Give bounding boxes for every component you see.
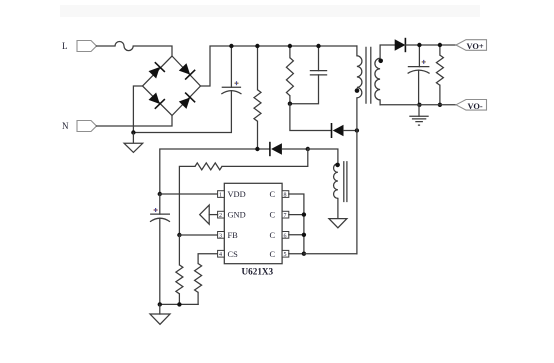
- resistor R3 FB divider: [176, 235, 183, 304]
- svg-text:VO-: VO-: [468, 102, 483, 111]
- node aux top junction: [306, 147, 310, 151]
- wire VDD line to pin 1: [160, 193, 218, 195]
- wire snubber to clamp diode: [290, 104, 332, 131]
- node output rail at R6: [438, 43, 442, 47]
- capacitor C2 snubber: [290, 46, 327, 104]
- wire primary bottom to drain rail: [356, 98, 358, 254]
- node rail A at R1 bottom: [255, 147, 259, 151]
- node top rail at C1: [229, 44, 233, 48]
- U1 pin 4: [218, 250, 225, 258]
- wire bus to drain line: [304, 253, 357, 255]
- connector VO+: [456, 40, 487, 51]
- wire FB line to pin 3: [179, 234, 217, 236]
- wire CS line to pin 4: [198, 254, 218, 264]
- wire pin 6 stub: [289, 234, 304, 236]
- U1 pin 3: [218, 232, 225, 240]
- node secondary polarity dot: [378, 59, 383, 64]
- resistor R2 snubber: [286, 46, 293, 104]
- svg-text:1: 1: [219, 193, 222, 199]
- svg-text:VO+: VO+: [467, 42, 484, 51]
- diode D7 output rectifier: [395, 38, 456, 52]
- node primary bottom junction: [355, 128, 359, 132]
- U1 pin 2: [218, 211, 225, 219]
- wire L to fuse: [97, 45, 116, 47]
- node VDD junction: [158, 192, 162, 196]
- node top rail at R2: [288, 44, 292, 48]
- transformer T1 aux core: [344, 161, 347, 202]
- node bus at pin 6: [302, 233, 306, 237]
- diode D5 clamp: [332, 123, 357, 138]
- svg-text:CS: CS: [228, 250, 239, 259]
- node aux polarity dot: [335, 163, 340, 168]
- wire primary ground rail to bulk cap: [133, 91, 231, 133]
- svg-text:2: 2: [219, 213, 222, 219]
- fuse F1: [115, 42, 133, 51]
- svg-text:VDD: VDD: [228, 190, 246, 199]
- transformer T1 aux winding: [334, 164, 338, 199]
- transformer T1 secondary winding: [375, 45, 395, 105]
- capacitor C3 VDD electrolytic: [150, 194, 170, 304]
- capacitor C1 bulk electrolytic: [221, 46, 241, 94]
- svg-text:FB: FB: [228, 231, 239, 240]
- svg-text:U621X3: U621X3: [242, 267, 274, 277]
- node ground rail at R3: [177, 302, 181, 306]
- svg-text:4: 4: [219, 252, 222, 258]
- U1 pin 1: [218, 191, 225, 199]
- resistor R4 CS sense: [195, 264, 202, 305]
- ground G2 output earth: [409, 105, 428, 125]
- wire aux winding to ground: [337, 198, 339, 218]
- svg-text:C: C: [270, 231, 276, 240]
- svg-text:5: 5: [284, 252, 287, 258]
- wire pin 7 stub: [289, 214, 304, 216]
- wire fuse to bridge top: [133, 46, 172, 56]
- node top rail at C2: [316, 44, 320, 48]
- wire N to bridge bottom: [97, 116, 173, 127]
- wire drain bus vertical: [289, 194, 304, 254]
- connector J1 L: [62, 41, 97, 52]
- U1 pin labels: [228, 190, 276, 259]
- wire bridge right to top rail: [201, 46, 357, 86]
- node bus at pin 5: [302, 252, 306, 256]
- ground G3 signal: [150, 304, 170, 324]
- wire bottom ground rail: [160, 303, 198, 305]
- bridge rectifier BR1 outline: [143, 56, 201, 116]
- bridge diode D1 top-left: [147, 62, 165, 79]
- ground G4 aux: [329, 219, 347, 228]
- bridge diode D3 bottom-left: [147, 91, 165, 108]
- svg-text:8: 8: [284, 193, 287, 199]
- diode D6 aux rectifier: [270, 142, 308, 156]
- resistor R1 startup: [254, 46, 261, 149]
- resistor R6 output load: [436, 45, 443, 105]
- GND input triangle symbol: [200, 205, 218, 224]
- transformer T1 primary winding: [357, 46, 362, 98]
- node snubber junction: [288, 102, 292, 106]
- connector J2 N: [62, 121, 97, 132]
- wire aux node to FB resistor: [222, 149, 308, 166]
- svg-text:L: L: [62, 41, 68, 51]
- node output rail at C4: [417, 43, 421, 47]
- svg-text:3: 3: [219, 233, 222, 239]
- resistor R5 feedback upper: [179, 163, 222, 235]
- bridge diode D2 top-right: [178, 62, 196, 79]
- svg-text:GND: GND: [228, 211, 246, 220]
- node FB junction: [177, 233, 181, 237]
- node bus at pin 7: [302, 212, 306, 216]
- U1 pin 7: [282, 211, 289, 219]
- svg-text:N: N: [62, 121, 69, 131]
- wire output return rail: [380, 104, 456, 106]
- node ground rail at C3: [158, 302, 162, 306]
- svg-text:C: C: [270, 190, 276, 199]
- node bridge ground junction: [131, 130, 135, 134]
- wire VDD rail A left segment: [160, 149, 270, 194]
- transformer T1 core: [366, 47, 371, 104]
- bridge diode D4 bottom-right: [178, 93, 196, 110]
- svg-text:C: C: [270, 250, 276, 259]
- svg-text:6: 6: [284, 233, 287, 239]
- wire pin 5 stub: [289, 253, 304, 255]
- capacitor C4 output electrolytic: [408, 45, 430, 105]
- node output return at R6: [438, 103, 442, 107]
- ground G1 under bridge: [124, 133, 143, 153]
- node primary polarity dot: [355, 88, 360, 93]
- wire bridge left to primary ground node: [133, 86, 142, 133]
- connector VO-: [456, 100, 487, 111]
- svg-text:C: C: [270, 211, 276, 220]
- U1 pin 5: [282, 250, 289, 258]
- op-amp U1 U621X3 body: [224, 183, 282, 263]
- node output return at C4: [417, 103, 421, 107]
- U1 pin 8: [282, 191, 289, 199]
- U1 pin 6: [282, 232, 289, 240]
- svg-text:7: 7: [284, 213, 287, 219]
- wire aux node to winding: [308, 149, 338, 164]
- node top rail at R1: [255, 44, 259, 48]
